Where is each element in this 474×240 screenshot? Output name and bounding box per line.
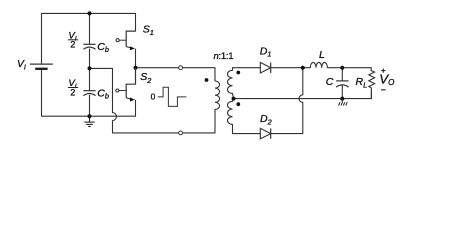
capacitor Cb2 [83, 88, 109, 101]
wire: node to inductor [303, 67, 311, 69]
svg-text:Cb: Cb [97, 88, 109, 101]
node: switch midpoint [134, 66, 138, 70]
svg-text:VO: VO [379, 72, 394, 88]
node: ground junction on bottom rail [88, 114, 92, 118]
wire: inductor to C and RL top [327, 68, 371, 71]
transformer secondary lower winding [228, 99, 234, 134]
terminal: primary top [179, 66, 183, 70]
svg-text:S1: S1 [143, 24, 154, 37]
svg-text:2: 2 [70, 40, 75, 50]
wire: Cb midpoint section [89, 49, 91, 90]
node: center tap [232, 97, 236, 101]
wire: C leads [341, 68, 343, 99]
svg-text:0: 0 [151, 91, 156, 101]
capacitor C [326, 76, 349, 88]
label VI/2 upper [68, 30, 78, 49]
svg-text:S2: S2 [140, 71, 151, 85]
node: capacitor midpoint [88, 66, 92, 70]
terminal: primary bottom [179, 131, 183, 135]
inductor L [310, 49, 327, 67]
transformer secondary upper winding [228, 70, 234, 98]
diode D1 [260, 45, 272, 73]
capacitor Cb1 [83, 41, 109, 54]
svg-text:VI: VI [17, 59, 26, 71]
svg-text:n:1:1: n:1:1 [214, 51, 234, 62]
wire: secondary top lead to D1 anode [233, 68, 261, 71]
wire: D2 cathode up to node (hop over tap rail) [271, 68, 303, 134]
node: C top [340, 66, 344, 70]
svg-text:Cb: Cb [97, 41, 109, 54]
ground [84, 116, 94, 126]
wire: switch midpoint to primary top [136, 67, 179, 69]
node: rectifier output [301, 66, 305, 70]
svg-text:RL: RL [356, 76, 368, 90]
wire: secondary bottom lead to D2 anode [233, 133, 261, 135]
resistor RL [356, 71, 375, 99]
switch S1 [116, 24, 154, 68]
wire: cap midpoint tap to primary bottom (with hop over rail) [90, 68, 179, 132]
label VI/2 lower [68, 78, 78, 97]
label output + Vo - [379, 69, 394, 90]
wire: Cb bottom to rail [89, 95, 91, 116]
ground (output, hatched) [339, 99, 348, 106]
node: top rail to Cb branch [88, 11, 92, 15]
transformer primary polarity dot [205, 78, 209, 82]
battery VI [17, 59, 53, 71]
node: C bottom [340, 97, 344, 101]
wire: D1 cathode to node [271, 67, 303, 69]
wire: battery bottom lead and bottom input rail [42, 69, 136, 116]
secondary lower polarity dot [236, 102, 240, 106]
wire: battery top lead and top rail [42, 13, 136, 63]
wire: terminal to primary bottom [183, 109, 215, 132]
svg-text:D2: D2 [260, 113, 272, 126]
diode D2 [260, 113, 272, 139]
secondary upper polarity dot [236, 71, 240, 75]
svg-text:D1: D1 [260, 45, 272, 58]
waveform annotation 0 [151, 87, 187, 106]
wire: terminal to primary top [183, 68, 215, 81]
switch S2 [116, 68, 151, 117]
wire: Cb branch upper [89, 13, 91, 44]
svg-text:L: L [319, 49, 325, 61]
svg-text:2: 2 [70, 87, 75, 97]
svg-text:C: C [326, 76, 334, 88]
transformer primary winding [215, 81, 220, 109]
wire: center tap rail [234, 91, 372, 99]
